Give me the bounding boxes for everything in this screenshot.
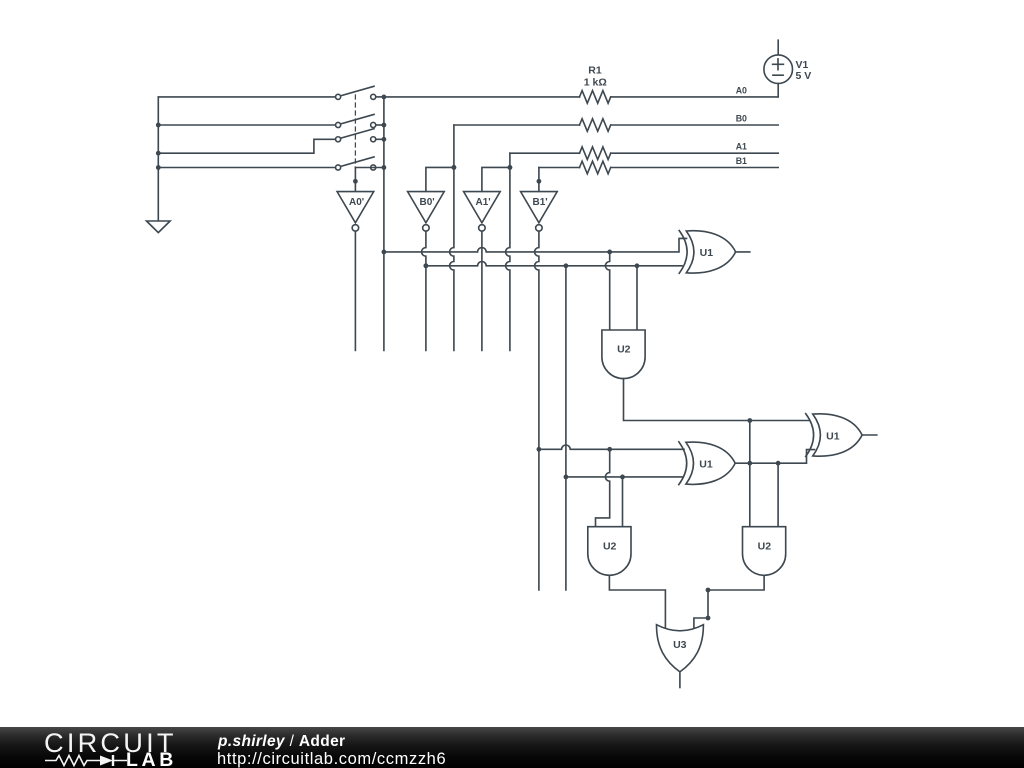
- svg-text:A1': A1': [476, 197, 491, 208]
- svg-text:U1: U1: [699, 459, 713, 471]
- svg-text:A1: A1: [736, 142, 747, 152]
- svg-text:B1': B1': [533, 197, 548, 208]
- svg-text:A0: A0: [736, 85, 747, 95]
- svg-text:U2: U2: [758, 540, 772, 552]
- svg-text:A0': A0': [349, 197, 364, 208]
- svg-text:V1: V1: [796, 59, 809, 71]
- svg-text:R1: R1: [588, 65, 602, 77]
- svg-text:1 kΩ: 1 kΩ: [584, 77, 607, 89]
- svg-text:U2: U2: [603, 540, 617, 552]
- svg-text:B0': B0': [420, 197, 435, 208]
- svg-text:U2: U2: [617, 344, 631, 356]
- svg-text:B1: B1: [736, 156, 747, 166]
- svg-text:U3: U3: [673, 639, 687, 651]
- svg-text:U1: U1: [700, 247, 714, 259]
- svg-text:5 V: 5 V: [796, 70, 812, 82]
- svg-text:U1: U1: [826, 430, 840, 442]
- svg-text:B0: B0: [736, 113, 747, 123]
